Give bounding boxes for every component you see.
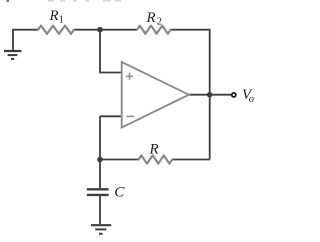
svg-text:o: o bbox=[249, 94, 254, 105]
svg-text:C: C bbox=[114, 183, 125, 200]
svg-text:R: R bbox=[149, 142, 159, 158]
svg-text:1: 1 bbox=[59, 14, 64, 25]
svg-text:R: R bbox=[146, 10, 156, 26]
svg-text:2: 2 bbox=[157, 17, 162, 28]
svg-text:R: R bbox=[49, 8, 59, 24]
